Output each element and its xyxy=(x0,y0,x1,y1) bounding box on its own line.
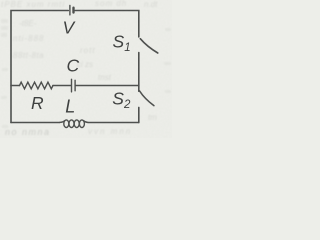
wire bottom-right segment xyxy=(88,122,139,124)
wire middle branch right segment to node xyxy=(76,85,139,87)
resistor R zigzag xyxy=(20,82,53,89)
wire left edge and top-left segment xyxy=(11,11,68,123)
capacitor C left plate xyxy=(71,79,73,92)
wire middle branch left lead xyxy=(11,85,20,87)
battery cell V short thick plate xyxy=(72,8,74,13)
wire bottom-left segment xyxy=(11,122,60,124)
battery cell V long plate xyxy=(69,5,71,15)
switch S2 blade xyxy=(140,91,154,106)
switch S1 blade xyxy=(140,39,158,53)
wire top-right segment xyxy=(75,11,139,37)
wire right edge lower segment xyxy=(138,107,140,122)
wire right edge upper-middle segment xyxy=(138,53,140,92)
capacitor C right plate xyxy=(74,80,76,91)
inductor L coil xyxy=(60,120,89,128)
wire between resistor and capacitor xyxy=(53,85,71,87)
